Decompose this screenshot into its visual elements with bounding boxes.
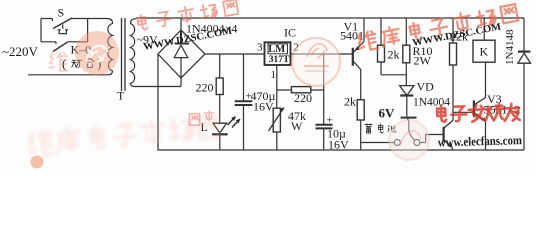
flexible lead from contact to plug — [408, 119, 415, 140]
resistor R10 2W — [403, 45, 410, 63]
plug-socket contacts to battery — [394, 140, 400, 146]
svg-text:www.elecfans.com: www.elecfans.com — [438, 133, 523, 149]
watermark small orange dot bottom-left — [31, 156, 44, 169]
transistor V2 5551 — [443, 127, 445, 143]
transformer T primary winding — [88, 19, 113, 75]
LED light arrows — [228, 117, 241, 128]
label battery (xu dian chi) CJK strokes — [365, 124, 396, 133]
capacitor 470u/16V plates — [235, 101, 253, 105]
svg-text:1N4004: 1N4004 — [413, 97, 450, 109]
wire V1 collector to 2k — [360, 70, 362, 100]
diode VD 1N4004 — [400, 86, 414, 96]
wire joining 2k and R10 — [381, 74, 406, 76]
bridge rectifier diamond 1N4004x4 — [158, 30, 205, 78]
wire V1 emitter to top rail — [363, 18, 365, 42]
wire resistor R10 branch from rail — [405, 18, 407, 86]
wire 10u branch — [323, 54, 325, 150]
watermark elecfans logo circle — [389, 120, 429, 160]
transistor V1 5401 — [352, 48, 354, 66]
svg-text:2k: 2k — [344, 95, 356, 109]
svg-text:K: K — [480, 45, 489, 59]
wire 2k to battery minus lead — [360, 120, 362, 150]
svg-text:16V: 16V — [253, 100, 274, 114]
svg-text:~220V: ~220V — [2, 44, 39, 59]
node: block right vertical — [87, 19, 89, 42]
paper background — [0, 0, 537, 170]
relay K coil box — [473, 40, 495, 62]
wire 470u filter branch — [243, 54, 245, 150]
capacitor 10u/16V plates — [316, 125, 333, 129]
svg-text:+: + — [327, 115, 333, 127]
wire secondary bottom to bridge — [134, 86, 181, 88]
watermark logo circle middle — [292, 38, 340, 86]
wire 220 ohm lamp branch — [219, 54, 221, 123]
wire battery plug left lead — [361, 142, 395, 144]
resistor 22k — [450, 43, 457, 65]
svg-text:220: 220 — [196, 81, 214, 95]
switch S left contact tick — [51, 19, 53, 22]
svg-text:LM: LM — [268, 44, 285, 55]
watermark elecfans red text — [437, 104, 520, 123]
wire 22k to V3 base — [453, 111, 473, 113]
resistor 220 (LED series) — [216, 78, 223, 95]
LED L symbol — [213, 123, 227, 133]
switch S blade — [53, 18, 72, 29]
svg-text:317T: 317T — [269, 55, 290, 65]
svg-text:VD: VD — [417, 80, 435, 94]
wire main top rail — [136, 17, 524, 19]
wire main bottom rail — [158, 149, 525, 151]
svg-text:W: W — [291, 119, 303, 133]
svg-text:6V: 6V — [379, 106, 396, 121]
wire 22k branch — [452, 18, 454, 120]
wire LM317 OUT to V1 base — [290, 53, 352, 55]
relay contact K-0 blade — [53, 42, 68, 52]
watermark top-center weiku dzsc text — [137, 0, 238, 31]
watermark char wei (left of block) — [49, 53, 67, 71]
svg-text:16V: 16V — [328, 138, 349, 152]
watermark red fragment near LED — [189, 111, 213, 125]
resistor 2k (charge current) — [357, 100, 364, 120]
resistor 220 (ADJ) horizontal — [291, 87, 310, 93]
svg-text:1N4148: 1N4148 — [504, 29, 516, 65]
wire left frame vertical — [157, 54, 159, 150]
transistor V3 5551 — [473, 100, 475, 117]
switch S manual operator symbol — [58, 25, 69, 34]
svg-text:S: S — [58, 6, 65, 20]
watermark logo circle over transformer — [75, 31, 119, 75]
wire resistor 2k branch from rail — [380, 18, 382, 75]
wire relay to top rail — [483, 18, 485, 40]
wire pot to bottom rail — [276, 132, 278, 150]
potentiometer 47k W body — [273, 108, 280, 132]
bridge top stem — [180, 18, 182, 30]
label (dong he) CJK strokes — [72, 58, 94, 68]
svg-text:2W: 2W — [414, 54, 432, 68]
wire V3 collector to relay — [485, 62, 487, 97]
svg-text:T: T — [117, 89, 125, 103]
contact K-0 left tick — [55, 42, 57, 44]
battery top contact bar — [401, 117, 417, 119]
bridge bottom stem — [180, 78, 182, 87]
resistor 2k (V1 bias) — [378, 45, 385, 62]
wire plug right lead to V2 base — [426, 135, 444, 143]
diode 1N4148 on right frame — [523, 18, 525, 150]
wire AC lower lead to transformer primary — [28, 74, 108, 76]
bridge inner diode — [175, 30, 189, 44]
watermark top-right weiku dzsc text — [357, 3, 519, 52]
wire ADJ to 220 feedback resistor — [277, 89, 324, 91]
svg-text:IC: IC — [284, 26, 296, 40]
transformer T secondary winding — [131, 19, 137, 87]
wire top rail of S/K-0 block — [41, 18, 88, 20]
svg-text:220: 220 — [294, 91, 312, 105]
wire DC+ from bridge to IC pin3 — [205, 53, 264, 55]
potentiometer wiper arrow — [269, 108, 285, 132]
op-amp/regulator IC LM317T box — [265, 42, 291, 65]
wire VD to battery plus contact — [406, 96, 408, 117]
node: AC input block left vertical — [40, 19, 42, 42]
transformer core — [122, 18, 126, 91]
svg-text:2k: 2k — [388, 48, 400, 62]
svg-text:1: 1 — [271, 69, 277, 81]
IC pin1 ADJ stem — [276, 64, 278, 108]
wire V3 emitter to bottom rail — [485, 122, 487, 151]
watermark bottom-left faint weiku text — [28, 114, 219, 156]
wire bottom rail of block with K-0 gap — [41, 41, 88, 43]
svg-text:3: 3 — [257, 42, 263, 54]
